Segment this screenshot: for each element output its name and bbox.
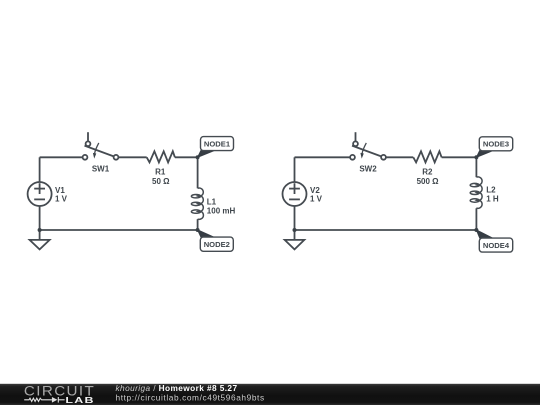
node NODE1 flag xyxy=(198,137,234,158)
ground left xyxy=(30,230,50,249)
voltage source V2 xyxy=(283,182,307,206)
wire bottom rail right circuit xyxy=(295,229,477,231)
junction dot NODE3 xyxy=(474,155,478,159)
svg-text:R1: R1 xyxy=(155,167,166,176)
node NODE3 flag xyxy=(476,137,512,158)
inductor L2 xyxy=(470,177,482,208)
voltage source V1 xyxy=(28,182,52,206)
wire V1 bottom stub xyxy=(39,206,41,230)
wire R1 to NODE1 junction xyxy=(175,156,198,158)
wire L2 to NODE4 xyxy=(475,208,477,230)
junction dot NODE1 xyxy=(196,155,200,159)
CircuitLab logo schematic line with resistor and diode xyxy=(24,397,64,403)
junction dot V1 bottom xyxy=(38,228,42,232)
svg-text:SW1: SW1 xyxy=(92,164,110,173)
svg-text:NODE2: NODE2 xyxy=(204,240,230,249)
svg-text:500 Ω: 500 Ω xyxy=(417,177,440,186)
node NODE2 flag xyxy=(198,230,234,251)
switch SW2 xyxy=(350,132,386,160)
footer bar xyxy=(0,384,540,405)
svg-text:L2: L2 xyxy=(486,186,496,195)
svg-text:NODE1: NODE1 xyxy=(204,140,231,149)
switch SW1 xyxy=(83,132,119,160)
svg-text:1 V: 1 V xyxy=(55,194,68,203)
wire V1 to SW1 xyxy=(40,156,83,158)
ground right xyxy=(285,230,305,249)
svg-text:1 V: 1 V xyxy=(310,194,323,203)
svg-text:50 Ω: 50 Ω xyxy=(152,177,170,186)
svg-text:1 H: 1 H xyxy=(486,195,499,204)
node NODE4 flag xyxy=(476,230,512,252)
svg-text:http://circuitlab.com/c49t596a: http://circuitlab.com/c49t596ah9bts xyxy=(116,393,265,403)
junction dot NODE2 xyxy=(196,228,200,232)
svg-text:L1: L1 xyxy=(207,198,217,207)
svg-text:SW2: SW2 xyxy=(359,164,377,173)
wire R2 to NODE3 junction xyxy=(442,156,477,158)
wire L1 to NODE2 xyxy=(197,219,199,230)
wire V2 top stub xyxy=(294,157,296,182)
wire bottom rail left circuit xyxy=(40,229,198,231)
wire SW1 to R1 xyxy=(118,156,146,158)
wire SW2 to R2 xyxy=(385,156,413,158)
wire V1 top stub xyxy=(39,157,41,182)
svg-text:NODE4: NODE4 xyxy=(483,241,510,250)
resistor R1 xyxy=(147,151,175,162)
junction dot NODE4 xyxy=(474,228,478,232)
inductor L1 xyxy=(191,188,203,219)
wire NODE3 to L2 xyxy=(475,157,477,177)
svg-text:NODE3: NODE3 xyxy=(483,140,509,149)
resistor R2 xyxy=(413,151,441,162)
svg-text:100 mH: 100 mH xyxy=(207,207,236,216)
svg-text:R2: R2 xyxy=(422,167,433,176)
wire V2 to SW2 xyxy=(295,156,351,158)
svg-text:LAB: LAB xyxy=(65,397,94,405)
wire V2 bottom stub xyxy=(294,206,296,230)
wire NODE1 to L1 xyxy=(197,157,199,188)
junction dot V2 bottom xyxy=(293,228,297,232)
